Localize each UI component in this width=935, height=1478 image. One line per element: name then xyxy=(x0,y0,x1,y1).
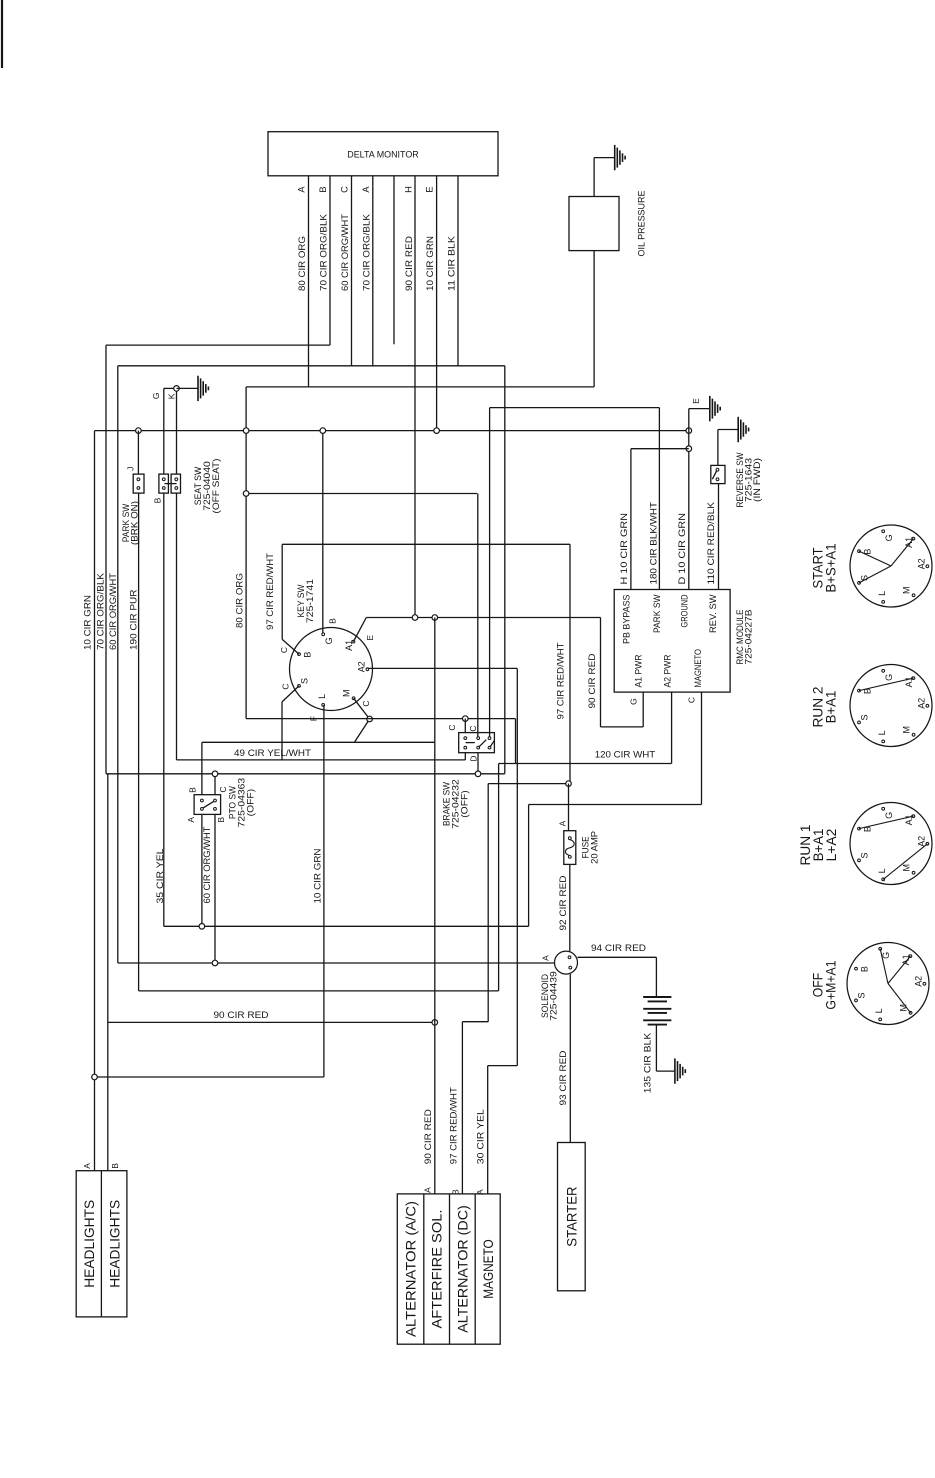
wire 92 CIR RED upper xyxy=(568,784,570,831)
wire 60 CIR ORG/WHT horizontal run xyxy=(118,365,505,367)
terminal brake sw bottom 478.2 xyxy=(477,746,480,749)
wire 97 CIR RED/WHT drop xyxy=(487,784,489,1022)
svg-text:94 CIR RED: 94 CIR RED xyxy=(591,943,646,954)
wire 10 CIR GRN headlight link xyxy=(95,1076,324,1078)
svg-text:J: J xyxy=(126,467,136,471)
svg-text:120 CIR WHT: 120 CIR WHT xyxy=(595,749,656,760)
svg-text:70 CIR ORG/BLK: 70 CIR ORG/BLK xyxy=(96,572,107,650)
wire alternator AC feed xyxy=(434,618,436,1194)
terminal RUN 2 position B xyxy=(858,689,861,692)
svg-text:(OFF): (OFF) xyxy=(245,789,255,817)
wire 92 CIR RED lower xyxy=(569,864,571,951)
terminal pto C xyxy=(214,799,217,802)
svg-text:L+A2: L+A2 xyxy=(823,828,839,861)
svg-text:C: C xyxy=(361,700,371,706)
terminal pto A xyxy=(201,808,204,811)
divider engine 1 xyxy=(423,1194,425,1344)
terminal RUN 1 position B xyxy=(858,827,861,830)
svg-text:PARK SW: PARK SW xyxy=(652,594,662,633)
svg-text:60 CIR ORG/WHT: 60 CIR ORG/WHT xyxy=(340,214,351,291)
wire H pin to module xyxy=(630,449,632,590)
terminal reverse sw top xyxy=(716,468,719,471)
terminal reverse sw bottom xyxy=(716,478,719,481)
terminal RUN 2 position G xyxy=(882,669,885,672)
terminal OFF position B xyxy=(855,967,858,970)
lever pto sw xyxy=(203,801,214,808)
svg-text:HEADLIGHTS: HEADLIGHTS xyxy=(81,1200,97,1288)
wire 30 CIR YEL riser xyxy=(516,668,518,1065)
junction alternator feed xyxy=(432,1020,438,1026)
wire MAGNETO drop xyxy=(701,692,703,804)
wire brake top-left lead xyxy=(464,719,466,733)
svg-text:(OFF): (OFF) xyxy=(459,790,469,818)
wire 90 CIR RED riser xyxy=(600,618,602,727)
wire 70 CIR ORG/BLK drop from delta A2pin xyxy=(372,176,374,366)
svg-text:ALTERNATOR (A/C): ALTERNATOR (A/C) xyxy=(402,1201,418,1337)
svg-text:180 CIR BLK/WHT: 180 CIR BLK/WHT xyxy=(648,502,659,585)
terminal pto B2 xyxy=(214,808,217,811)
wire 80 CIR ORG from oil pressure xyxy=(593,251,595,387)
connector engine block xyxy=(397,1194,500,1344)
junction ground bus at key G wire xyxy=(320,428,326,434)
terminal brake sw bottom 489.5 xyxy=(488,746,491,749)
svg-text:C: C xyxy=(687,697,697,703)
terminal START position B xyxy=(858,550,861,553)
terminal solenoid top xyxy=(568,956,571,959)
svg-text:MAGNETO: MAGNETO xyxy=(480,1239,496,1299)
wire 94 CIR RED drop xyxy=(655,957,657,996)
wire battery ground stem xyxy=(656,1070,675,1072)
wire 35 CIR YEL bus xyxy=(164,925,529,927)
diagram RUN 2 position body xyxy=(850,665,932,747)
svg-text:A: A xyxy=(541,955,551,961)
svg-text:L: L xyxy=(317,694,327,699)
terminal key sw M xyxy=(352,697,355,700)
svg-text:H 10 CIR GRN: H 10 CIR GRN xyxy=(619,513,630,585)
svg-text:C: C xyxy=(447,724,457,730)
wire 70 CIR ORG/BLK drop from delta B xyxy=(329,176,331,345)
wire 70 CIR ORG/BLK horizontal run xyxy=(106,344,330,346)
junction headlight A xyxy=(92,1074,98,1080)
wire E ground stem xyxy=(689,408,710,410)
wire headlight B feed xyxy=(107,774,109,1171)
svg-text:C: C xyxy=(340,186,350,193)
svg-text:E: E xyxy=(425,186,435,192)
svg-text:49 CIR YEL/WHT: 49 CIR YEL/WHT xyxy=(234,748,311,759)
wire 90 CIR RED drop from delta H xyxy=(414,176,416,618)
wire 190 CIR PUR riser xyxy=(498,764,500,991)
terminal solenoid bottom xyxy=(569,966,572,969)
svg-text:(OFF SEAT): (OFF SEAT) xyxy=(211,459,221,514)
wire 80 CIR ORG drop from delta A xyxy=(308,176,310,387)
wire seat ground stem xyxy=(177,387,199,389)
terminal RUN 1 position A2 xyxy=(926,842,929,845)
switch SEAT SW left xyxy=(159,474,169,493)
wire pto B riser xyxy=(201,742,203,794)
svg-text:A2: A2 xyxy=(357,661,367,672)
border tick mark xyxy=(1,0,3,68)
svg-text:A: A xyxy=(361,186,371,193)
svg-text:80 CIR ORG: 80 CIR ORG xyxy=(234,573,245,628)
svg-text:GROUND: GROUND xyxy=(680,594,690,627)
terminal RUN 2 position L xyxy=(882,740,885,743)
svg-text:D 10 CIR GRN: D 10 CIR GRN xyxy=(677,513,688,585)
junction pto A node xyxy=(199,924,205,930)
wire 70 CIR ORG/BLK left column xyxy=(105,345,107,774)
wire 10 CIR GRN left column xyxy=(94,431,96,1171)
battery plates xyxy=(643,996,671,998)
wire 135 CIR BLK xyxy=(655,1025,657,1072)
terminal RUN 2 position A1 xyxy=(912,677,915,680)
svg-text:OIL PRESSURE: OIL PRESSURE xyxy=(636,191,647,257)
svg-text:M: M xyxy=(902,864,912,872)
terminal seat sw 3 xyxy=(175,478,178,481)
svg-text:725-04227B: 725-04227B xyxy=(743,610,753,665)
terminal START position A2 xyxy=(926,565,929,568)
svg-text:10 CIR GRN: 10 CIR GRN xyxy=(313,848,324,903)
svg-text:97 CIR RED/WHT: 97 CIR RED/WHT xyxy=(449,1087,460,1164)
diagram RUN 1 position body xyxy=(850,803,932,885)
svg-text:60 CIR ORG/WHT: 60 CIR ORG/WHT xyxy=(202,826,213,903)
wire 10 CIR GRN key L drop xyxy=(323,705,325,1077)
terminal brake sw top 478.2 xyxy=(477,737,480,740)
terminal OFF position M xyxy=(909,1011,912,1014)
terminal RUN 2 position S xyxy=(858,721,861,724)
wire pto C riser xyxy=(214,774,216,795)
svg-text:B+S+A1: B+S+A1 xyxy=(822,543,838,592)
lever brake sw 2 xyxy=(490,740,495,747)
svg-text:M: M xyxy=(342,689,352,697)
svg-text:97 CIR RED/WHT: 97 CIR RED/WHT xyxy=(555,642,566,719)
svg-text:A2 PWR: A2 PWR xyxy=(662,654,672,687)
wire 190 CIR PUR lower xyxy=(138,493,140,991)
svg-text:97 CIR RED/WHT: 97 CIR RED/WHT xyxy=(265,553,276,630)
ground E xyxy=(709,396,711,421)
junction 97 RED/WHT fuse node xyxy=(566,781,572,787)
wire reverse ground stem xyxy=(718,429,738,431)
wire key B diagonal xyxy=(282,639,299,654)
svg-text:A1: A1 xyxy=(904,537,914,548)
wire A1 bus xyxy=(366,617,600,619)
svg-text:B: B xyxy=(859,966,869,972)
svg-text:725-1741: 725-1741 xyxy=(305,579,315,623)
wire H pin link xyxy=(631,448,689,450)
wire key A1 diagonal xyxy=(353,618,366,642)
wire 80 CIR ORG down to ground bus xyxy=(245,387,247,719)
lever reverse sw xyxy=(712,471,716,479)
wire module D ground xyxy=(688,409,690,590)
terminal RUN 2 position M xyxy=(912,733,915,736)
terminal key sw L xyxy=(322,704,325,707)
levers START position xyxy=(859,551,891,566)
divider engine 3 xyxy=(474,1194,476,1344)
wire brake common riser xyxy=(477,494,479,739)
svg-text:K: K xyxy=(167,393,177,399)
switch REVERSE SW xyxy=(711,465,725,483)
svg-text:REV. SW: REV. SW xyxy=(708,594,718,633)
svg-text:A1: A1 xyxy=(344,640,354,651)
svg-text:B: B xyxy=(328,618,338,624)
svg-text:S: S xyxy=(859,852,869,858)
wire key S diagonal xyxy=(282,686,299,702)
svg-text:M: M xyxy=(902,586,912,594)
wire 110 CIR RED/BLK xyxy=(718,484,720,590)
svg-text:MAGNETO: MAGNETO xyxy=(693,649,703,688)
wire afterfire link xyxy=(462,1021,488,1023)
wire key switch G to ground bus xyxy=(322,431,324,635)
wire 97 CIR RED/WHT mid riser xyxy=(569,544,571,783)
svg-text:STARTER: STARTER xyxy=(563,1187,579,1247)
terminal START position L xyxy=(882,601,885,604)
terminal OFF position G xyxy=(879,947,882,950)
svg-text:90 CIR RED: 90 CIR RED xyxy=(404,236,415,291)
terminal key sw S xyxy=(298,685,301,688)
wire seat switch lower right xyxy=(176,493,178,760)
svg-text:L: L xyxy=(874,1008,884,1013)
module RMC MODULE xyxy=(614,590,730,693)
fuse FUSE 20 AMP xyxy=(564,831,576,865)
svg-text:20 AMP: 20 AMP xyxy=(590,831,600,864)
terminal key sw G xyxy=(322,633,325,636)
svg-text:G: G xyxy=(324,637,334,644)
connector DELTA MONITOR xyxy=(268,132,498,176)
wire oil pressure ground stem xyxy=(594,157,615,159)
wire 97 CIR RED/WHT link xyxy=(488,783,568,785)
svg-text:H: H xyxy=(403,186,413,193)
junction ground bus at module ground xyxy=(686,428,692,434)
junction A1 bus alternator feed xyxy=(432,615,438,621)
terminal brake sw top 465.3 xyxy=(464,737,467,740)
terminal OFF position A1 xyxy=(909,955,912,958)
svg-text:ALTERNATOR (DC): ALTERNATOR (DC) xyxy=(454,1205,470,1333)
wire seat switch lower left 35 CIR YEL xyxy=(163,493,165,926)
wire G to ground node link xyxy=(164,387,177,389)
terminal key sw A2 xyxy=(366,668,369,671)
svg-text:10 CIR GRN: 10 CIR GRN xyxy=(425,236,436,291)
terminal RUN 2 position A2 xyxy=(926,704,929,707)
terminal OFF position A2 xyxy=(923,982,926,985)
ground at seat switch xyxy=(197,376,199,401)
wire A1 PWR link xyxy=(601,726,644,728)
bar brake sw internal xyxy=(466,742,475,744)
svg-text:80 CIR ORG: 80 CIR ORG xyxy=(297,236,308,291)
terminal brake sw top 489.5 xyxy=(488,737,491,740)
wire 60 CIR ORG/WHT left column xyxy=(117,366,119,963)
svg-text:G+M+A1: G+M+A1 xyxy=(822,960,838,1009)
wire afterfire B lead xyxy=(461,1022,463,1194)
terminal RUN 1 position A1 xyxy=(912,815,915,818)
wire safety bus xyxy=(106,773,505,775)
wire A2 line xyxy=(367,667,517,669)
terminal park sw 2 xyxy=(137,487,140,490)
svg-text:B: B xyxy=(318,186,328,192)
svg-text:A: A xyxy=(423,1187,433,1193)
svg-text:A1: A1 xyxy=(901,954,911,965)
svg-text:B: B xyxy=(216,817,226,823)
wire 49 CIR YEL/WHT upper xyxy=(202,741,435,743)
svg-text:L: L xyxy=(877,730,887,735)
svg-text:S: S xyxy=(299,678,309,684)
wire 93 CIR RED xyxy=(569,974,571,1142)
svg-text:90 CIR RED: 90 CIR RED xyxy=(214,1010,269,1021)
svg-text:G: G xyxy=(151,392,161,399)
wire 97 CIR RED/WHT horizontal xyxy=(282,543,570,545)
wire 80 CIR ORG spur xyxy=(246,493,477,495)
lever brake sw 1 xyxy=(479,740,487,748)
wire 10 CIR GRN drop from delta E xyxy=(436,176,438,431)
terminal pto B xyxy=(201,799,204,802)
terminal fuse bottom xyxy=(568,856,571,859)
diagram OFF position body xyxy=(847,943,929,1025)
switch KEY SW body xyxy=(290,628,373,711)
svg-text:C: C xyxy=(280,683,290,689)
wire ground bus xyxy=(95,430,689,432)
wire 60 CIR ORG/WHT drop from delta C xyxy=(351,176,353,366)
terminal OFF position L xyxy=(879,1018,882,1021)
junction ground bus H node xyxy=(686,446,692,452)
svg-text:PB BYPASS: PB BYPASS xyxy=(621,595,631,645)
svg-text:B+A1: B+A1 xyxy=(822,690,838,723)
svg-text:C: C xyxy=(468,725,478,731)
svg-text:A: A xyxy=(557,820,567,826)
svg-text:135 CIR BLK: 135 CIR BLK xyxy=(643,1032,654,1093)
divider engine 2 xyxy=(449,1194,451,1344)
junction ground bus at 80 CIR ORG xyxy=(243,428,249,434)
wire key M diagonal xyxy=(354,698,370,719)
levers OFF position xyxy=(880,949,888,984)
svg-text:(IN FWD): (IN FWD) xyxy=(752,458,762,502)
svg-text:C: C xyxy=(279,647,289,653)
svg-text:D: D xyxy=(468,755,478,761)
svg-text:35 CIR YEL: 35 CIR YEL xyxy=(155,848,166,904)
junction ground bus at park sw xyxy=(136,428,142,434)
junction M node xyxy=(367,716,373,722)
terminal RUN 1 position G xyxy=(882,807,885,810)
svg-text:B: B xyxy=(110,1163,120,1169)
terminal key sw B xyxy=(298,653,301,656)
svg-text:60 CIR ORG/WHT: 60 CIR ORG/WHT xyxy=(108,573,119,650)
junction pto C xyxy=(212,771,218,777)
svg-text:G: G xyxy=(628,698,638,705)
ground at battery xyxy=(674,1058,676,1083)
svg-text:DELTA MONITOR: DELTA MONITOR xyxy=(347,150,419,161)
svg-text:A: A xyxy=(297,186,307,193)
wire 180 CIR BLK/WHT to brake xyxy=(489,408,491,738)
wire key M to 49 line xyxy=(355,719,370,742)
terminal key sw A1 xyxy=(352,640,355,643)
svg-text:A2: A2 xyxy=(917,558,927,569)
wire 190 CIR PUR upper xyxy=(137,431,139,475)
wire 35 CIR YEL riser xyxy=(528,805,530,927)
svg-text:70 CIR ORG/BLK: 70 CIR ORG/BLK xyxy=(319,213,330,291)
terminal seat sw 1 xyxy=(162,478,165,481)
diagram START position body xyxy=(850,525,932,607)
svg-text:A2: A2 xyxy=(914,976,924,987)
wire 190 CIR PUR bus xyxy=(139,990,499,992)
levers RUN 1 position xyxy=(859,816,913,829)
svg-text:B: B xyxy=(188,787,198,793)
svg-text:725-04439: 725-04439 xyxy=(549,971,559,1021)
svg-text:11 CIR BLK: 11 CIR BLK xyxy=(447,235,458,291)
terminal RUN 1 position M xyxy=(912,871,915,874)
junction ground bus at delta E wire xyxy=(434,428,440,434)
wire M A2 bus xyxy=(246,718,515,720)
terminal seat sw 2 xyxy=(162,487,165,490)
wire 60 CIR ORG/WHT pto drop xyxy=(201,814,203,926)
levers RUN 2 position xyxy=(859,678,913,691)
svg-text:90 CIR RED: 90 CIR RED xyxy=(587,653,598,708)
terminal START position S xyxy=(858,582,861,585)
junction seat ground node xyxy=(174,386,180,392)
ground at oil pressure xyxy=(614,145,616,170)
svg-text:190 CIR PUR: 190 CIR PUR xyxy=(129,589,140,650)
svg-text:90 CIR RED: 90 CIR RED xyxy=(423,1109,434,1164)
svg-text:A1 PWR: A1 PWR xyxy=(634,654,644,687)
junction A1 bus delta H xyxy=(412,615,418,621)
svg-text:G: G xyxy=(884,812,894,819)
svg-text:110 CIR RED/BLK: 110 CIR RED/BLK xyxy=(706,501,717,584)
svg-text:A2: A2 xyxy=(917,698,927,709)
wire seat switch G lead xyxy=(163,388,165,474)
wire A1 PWR drop xyxy=(642,692,644,727)
wire 97 CIR RED/WHT riser xyxy=(281,544,283,639)
terminal RUN 1 position S xyxy=(858,859,861,862)
terminal fuse top xyxy=(568,837,571,840)
junction pto B2 node xyxy=(212,960,218,966)
svg-text:B: B xyxy=(302,652,312,658)
wire 90 CIR RED bottom xyxy=(108,1021,435,1023)
junction brake sw top xyxy=(463,716,469,722)
svg-text:E: E xyxy=(365,635,375,641)
wire magneto link xyxy=(529,804,702,806)
wire 120 CIR WHT xyxy=(499,763,672,765)
wire 180 CIR BLK/WHT horizontal xyxy=(490,407,660,409)
svg-text:L: L xyxy=(877,868,887,873)
wire 120 CIR WHT elbow xyxy=(515,719,517,764)
svg-text:92 CIR RED: 92 CIR RED xyxy=(558,875,569,930)
wire 94 CIR RED xyxy=(578,956,657,958)
svg-text:S: S xyxy=(859,714,869,720)
svg-text:A: A xyxy=(82,1163,92,1169)
wire seat switch K lead xyxy=(176,388,178,474)
wire 180 CIR BLK/WHT module riser xyxy=(658,408,660,590)
wire brake bottom-mid lead xyxy=(477,752,479,773)
junction 80 CIR ORG spur xyxy=(243,491,249,497)
wire 11 CIR BLK riser xyxy=(504,366,506,774)
wire 80 CIR ORG horizontal run xyxy=(246,386,594,388)
ground at reverse switch xyxy=(737,417,739,442)
terminal seat sw 4 xyxy=(175,487,178,490)
svg-text:E: E xyxy=(691,398,701,404)
svg-text:A: A xyxy=(186,817,196,823)
terminal park sw 1 xyxy=(137,478,140,481)
svg-text:HEADLIGHTS: HEADLIGHTS xyxy=(106,1200,122,1288)
switch BRAKE SW xyxy=(459,733,495,753)
svg-text:30 CIR YEL: 30 CIR YEL xyxy=(475,1108,486,1164)
svg-text:M: M xyxy=(902,726,912,734)
wire stub from delta unlabeled pin xyxy=(393,176,395,344)
terminal RUN 1 position L xyxy=(882,878,885,881)
wire 11 CIR BLK drop from delta xyxy=(457,176,459,366)
wire A2 PWR drop xyxy=(671,692,673,763)
svg-text:AFTERFIRE SOL.: AFTERFIRE SOL. xyxy=(429,1210,445,1329)
switch PTO SW xyxy=(194,795,221,815)
svg-text:93 CIR RED: 93 CIR RED xyxy=(558,1050,569,1105)
junction brake bottom xyxy=(475,771,481,777)
terminal START position M xyxy=(912,594,915,597)
terminal OFF position S xyxy=(855,999,858,1002)
element fuse curve xyxy=(565,840,574,856)
